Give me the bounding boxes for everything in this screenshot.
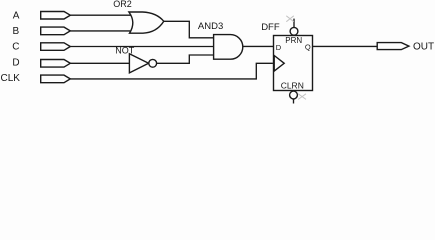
DFF preset bubble PRN <box>290 27 298 35</box>
input pin C <box>41 43 71 51</box>
DFF clear bubble CLRN <box>290 91 298 99</box>
DFF clock triangle <box>274 56 284 72</box>
svg-text:B: B <box>13 26 20 37</box>
wire AND3 output to DFF D input <box>243 45 273 47</box>
input pin A <box>41 12 71 20</box>
svg-text:D: D <box>12 57 19 68</box>
svg-text:OUT: OUT <box>413 41 434 52</box>
svg-text:Q: Q <box>305 42 311 51</box>
wire D to NOT <box>70 62 129 64</box>
svg-text:DFF: DFF <box>261 22 280 33</box>
input pin B <box>41 27 71 35</box>
svg-text:OR2: OR2 <box>113 0 132 9</box>
svg-text:A: A <box>13 10 20 21</box>
DFF clear open-end mark <box>298 94 306 100</box>
DFF preset stub <box>293 19 295 28</box>
and-gate AND3 <box>214 35 243 60</box>
input pin D <box>41 60 71 68</box>
svg-text:PRN: PRN <box>285 36 302 45</box>
output pin OUT <box>377 43 409 50</box>
svg-text:D: D <box>276 43 282 52</box>
DFF clear stub <box>293 99 295 104</box>
svg-text:C: C <box>12 41 19 52</box>
wire DFF Q output to OUT <box>313 45 378 47</box>
svg-text:CLK: CLK <box>1 73 21 84</box>
not-gate NOT bubble <box>149 59 157 67</box>
wire C to AND3 middle input <box>70 46 213 48</box>
flip-flop DFF body <box>274 36 313 91</box>
wire CLK to DFF clock <box>70 63 273 79</box>
DFF preset open-end mark <box>286 16 294 22</box>
svg-text:CLRN: CLRN <box>281 80 304 90</box>
wire A to OR2 <box>70 14 131 16</box>
svg-text:AND3: AND3 <box>198 21 223 32</box>
wire B to OR2 <box>70 30 130 32</box>
wire NOT output to AND3 bottom input <box>157 55 214 63</box>
wire OR2 output to AND3 top input <box>164 21 214 38</box>
not-gate NOT triangle <box>129 54 148 73</box>
or-gate OR2 <box>129 12 164 33</box>
input pin CLK <box>41 75 71 83</box>
